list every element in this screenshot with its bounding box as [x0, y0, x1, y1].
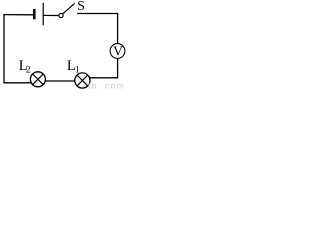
svg-text:V: V [113, 44, 123, 59]
lamp L1 circle [75, 73, 90, 88]
lamp L2 circle [30, 72, 45, 87]
svg-text:1: 1 [75, 66, 80, 76]
wire: voltmeter bottom to bottom-right corner to lamp L1 [90, 58, 118, 77]
wire: top-left horizontal to battery negative [3, 14, 33, 16]
svg-text:S: S [77, 0, 85, 13]
wire: left vertical side [3, 14, 5, 83]
wire: between lamps L2 and L1 [45, 80, 75, 82]
lamp L1 cross [77, 75, 88, 86]
wire: battery positive to switch pivot [43, 14, 59, 16]
svg-text:2: 2 [26, 66, 31, 76]
lamp L2 cross [33, 74, 44, 85]
battery negative plate (short thick bar) [33, 9, 36, 19]
switch S lever (open blade) [63, 3, 75, 13]
wire: bottom-left horizontal from corner to lamp L2 [3, 82, 31, 84]
battery positive plate (long thin bar) [42, 3, 44, 26]
switch S pivot contact circle [59, 13, 63, 17]
voltmeter circle [110, 44, 125, 59]
wire: switch fixed contact to top-right corner down to voltmeter [77, 14, 117, 44]
svg-text:tb. com: tb. com [88, 81, 125, 91]
